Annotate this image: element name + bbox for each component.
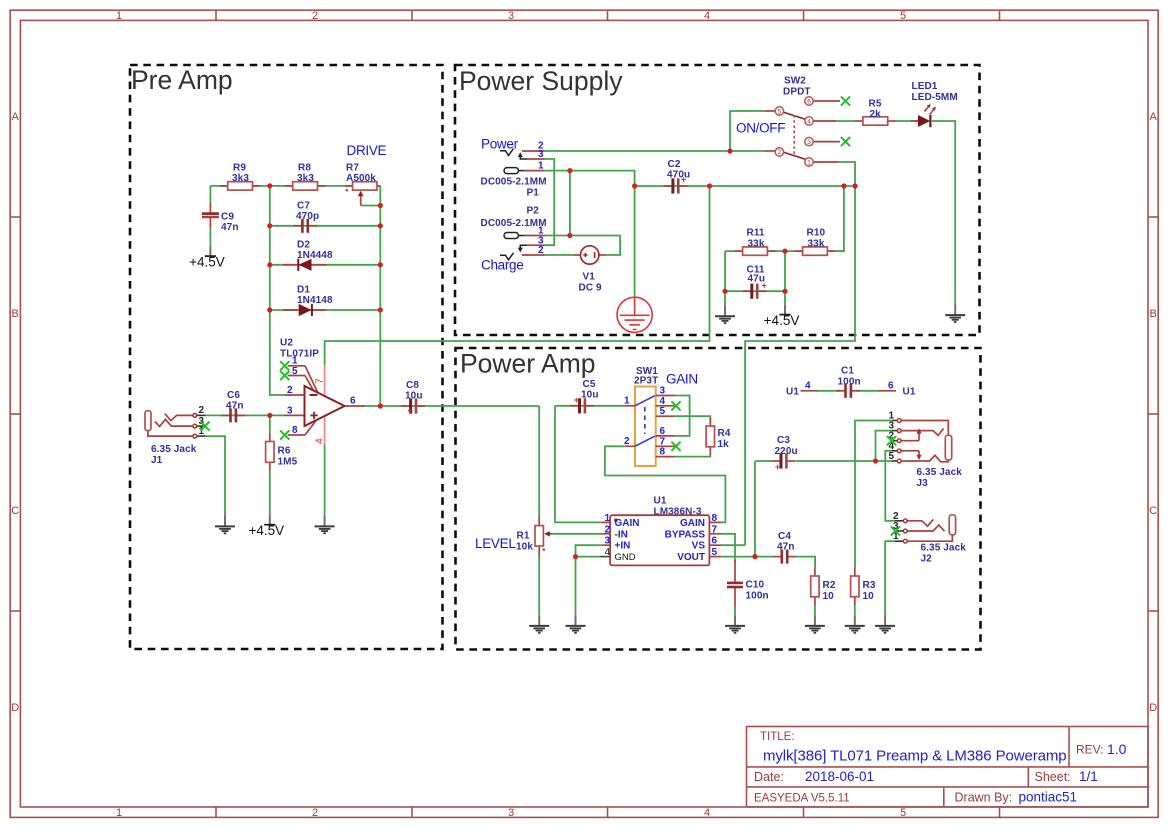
svg-text:3: 3 [538, 149, 544, 160]
svg-text:U1: U1 [654, 496, 667, 507]
svg-text:1: 1 [807, 159, 811, 166]
svg-text:LEVEL: LEVEL [475, 536, 516, 551]
frame row letters right [1149, 111, 1157, 714]
wire opamp pin4 to ground [324, 444, 326, 516]
svg-text:A: A [1150, 111, 1158, 123]
wire C4 to R2 [797, 557, 816, 568]
svg-text:2: 2 [312, 807, 318, 819]
IC U1 LM386N-3 [600, 496, 721, 566]
net flag +4.5V at C9 [189, 247, 225, 270]
wire R6 bottom to +4.5V [269, 470, 271, 516]
no-connect X SW2 pin6 [841, 96, 850, 105]
svg-text:1: 1 [116, 807, 122, 819]
svg-text:Charge: Charge [481, 258, 523, 273]
svg-text:4: 4 [605, 547, 611, 558]
wire VOUT row to C4 [721, 556, 773, 558]
junction P2 pin1 node [567, 233, 572, 238]
svg-text:1k: 1k [718, 439, 730, 450]
svg-text:4: 4 [314, 438, 326, 444]
diode D1 1N4148 [283, 285, 333, 317]
junction R11-R10 node [782, 249, 787, 254]
svg-text:1: 1 [538, 161, 544, 172]
potentiometer R1 [516, 517, 552, 557]
wire VOUT up to C3 [754, 461, 756, 557]
svg-text:P1: P1 [527, 188, 540, 199]
svg-text:C7: C7 [297, 201, 310, 212]
svg-text:DPDT: DPDT [783, 87, 811, 98]
svg-text:4: 4 [805, 381, 811, 392]
connector P2 DC005-2.1MM [481, 206, 547, 273]
wire input row J1 pin2 to opamp pin3 [206, 414, 285, 416]
switch SW2 DPDT [764, 76, 840, 167]
no-connect X opamp pin5 [280, 371, 289, 380]
svg-text:J1: J1 [151, 455, 163, 466]
resistor R2 [811, 568, 819, 605]
svg-text:C2: C2 [668, 159, 681, 170]
ground LED [945, 305, 965, 323]
svg-text:6: 6 [888, 381, 894, 392]
wire SW1 pin5 to R4 top [675, 416, 711, 420]
junction R10 tap [841, 183, 846, 188]
svg-text:R8: R8 [298, 163, 311, 174]
wire C5 row [555, 405, 625, 407]
svg-text:5: 5 [900, 807, 906, 819]
svg-text:2: 2 [312, 10, 318, 22]
svg-text:C3: C3 [777, 435, 790, 446]
svg-text:mylk[386] TL071 Preamp & LM386: mylk[386] TL071 Preamp & LM386 Poweramp [763, 748, 1066, 765]
wire J1 pin1 to ground [206, 436, 226, 516]
svg-text:6: 6 [807, 98, 811, 105]
svg-text:47n: 47n [221, 222, 239, 233]
svg-text:1N4448: 1N4448 [297, 250, 333, 261]
svg-text:GND: GND [615, 552, 636, 563]
svg-text:R2: R2 [823, 580, 836, 591]
svg-text:R10: R10 [807, 228, 826, 239]
svg-text:Pre Amp: Pre Amp [131, 65, 233, 95]
wire opamp output row [362, 405, 539, 407]
svg-text:2: 2 [287, 385, 293, 396]
svg-text:6: 6 [660, 426, 666, 437]
svg-text:LED1: LED1 [912, 81, 938, 92]
svg-text:Drawn By:: Drawn By: [955, 791, 1013, 805]
wire SW1 pin3 to pin6 [675, 396, 690, 436]
svg-text:C: C [11, 505, 19, 517]
ground R1 [529, 615, 549, 633]
svg-text:220u: 220u [775, 446, 798, 457]
wire U1 pin6 VS up [721, 544, 745, 546]
capacitor C6 [221, 408, 245, 422]
svg-text:B: B [12, 308, 19, 320]
svg-text:5: 5 [712, 547, 718, 558]
svg-text:1.0: 1.0 [1107, 741, 1127, 757]
svg-text:2P3T: 2P3T [634, 376, 658, 387]
switch SW1 2P3T [624, 366, 675, 466]
svg-text:3: 3 [807, 139, 811, 146]
frame column numbers bottom [116, 807, 906, 819]
svg-text:C9: C9 [221, 212, 234, 223]
resistor R8 [285, 182, 326, 190]
capacitor C2 [664, 159, 691, 194]
svg-text:2: 2 [538, 245, 544, 256]
svg-text:-IN: -IN [615, 529, 628, 540]
wire D1 row [270, 309, 381, 311]
svg-text:VS: VS [692, 541, 706, 552]
svg-text:3k3: 3k3 [297, 173, 314, 184]
svg-text:3: 3 [508, 807, 514, 819]
svg-text:3: 3 [508, 10, 514, 22]
svg-text:C4: C4 [778, 531, 791, 542]
svg-text:10k: 10k [516, 542, 533, 553]
svg-text:8: 8 [712, 513, 718, 524]
wire SW1 pin2 loop to U1 pin8 [605, 446, 726, 522]
ground C11 [715, 306, 735, 324]
svg-text:+: + [775, 462, 780, 472]
svg-text:47n: 47n [226, 401, 244, 412]
wire preamp out to R1 top [538, 406, 540, 517]
svg-text:C5: C5 [583, 379, 596, 390]
svg-text:33k: 33k [748, 239, 765, 250]
svg-text:REV:: REV: [1076, 743, 1104, 757]
resistor R3 [851, 568, 859, 605]
no-connect X J1 pin3 [200, 422, 209, 431]
svg-text:2: 2 [199, 405, 205, 416]
wire right feedback rail [379, 186, 381, 406]
svg-text:C1: C1 [841, 366, 854, 377]
wire U1 pin4 gnd stub [576, 556, 601, 558]
junction C11 left [722, 289, 727, 294]
resistor R5 [855, 117, 896, 125]
svg-text:10: 10 [823, 591, 835, 602]
svg-text:4: 4 [704, 10, 710, 22]
svg-text:1N4148: 1N4148 [297, 295, 333, 306]
svg-text:2k: 2k [870, 109, 882, 120]
svg-text:6.35 Jack: 6.35 Jack [151, 444, 197, 455]
frame row ticks right [1148, 217, 1158, 611]
svg-text:5: 5 [778, 108, 782, 115]
opamp U2 TL071IP [280, 338, 365, 445]
svg-text:6.35 Jack: 6.35 Jack [921, 543, 967, 554]
svg-text:P2: P2 [527, 206, 540, 217]
svg-text:5: 5 [660, 406, 666, 417]
svg-text:8: 8 [660, 447, 666, 458]
wire P1 pin1 row to C2 and earth [545, 171, 635, 297]
no-connect X SW1 pin4 [671, 401, 680, 410]
svg-text:6: 6 [350, 396, 356, 407]
svg-text:47u: 47u [748, 274, 766, 285]
svg-text:6: 6 [712, 536, 718, 547]
wire R11 R10 row [725, 250, 844, 252]
ground J1 [215, 516, 235, 534]
wire P2 pin1 row [545, 236, 621, 256]
wire J3 pin3 branch [876, 431, 892, 461]
svg-text:2: 2 [624, 436, 630, 447]
svg-text:BYPASS: BYPASS [665, 529, 706, 540]
capacitor C3 [772, 435, 798, 472]
wire R4 bottom to SW1 pin8 [675, 453, 711, 457]
no-connect X SW1 pin7 [671, 442, 680, 451]
junction preamp V+ tap [707, 183, 712, 188]
no-connect X opamp pin8 [280, 430, 289, 439]
capacitor C7 [293, 219, 317, 233]
svg-text:GAIN: GAIN [680, 518, 705, 529]
svg-text:1: 1 [116, 10, 122, 22]
svg-text:B: B [1150, 308, 1157, 320]
svg-text:SW2: SW2 [784, 76, 806, 87]
svg-text:47n: 47n [777, 542, 795, 553]
svg-text:C8: C8 [406, 380, 419, 391]
svg-text:GAIN: GAIN [666, 372, 698, 387]
svg-text:1/1: 1/1 [1079, 769, 1098, 784]
wire C10 bottom ground [734, 606, 736, 615]
svg-text:3: 3 [287, 406, 293, 417]
svg-text:J2: J2 [921, 554, 933, 565]
junction VOUT node [752, 554, 757, 559]
wire C1 fragment left [817, 390, 840, 392]
svg-text:Power Amp: Power Amp [460, 349, 596, 379]
wire C2 supply rail [635, 185, 855, 187]
svg-text:5: 5 [889, 451, 895, 462]
svg-text:1: 1 [605, 513, 611, 524]
svg-text:10u: 10u [405, 391, 423, 402]
svg-text:R6: R6 [278, 446, 291, 457]
resistor R9 [220, 182, 261, 190]
junction C11 right [782, 289, 787, 294]
wire C3 row to J3 pin5 [755, 460, 772, 462]
junction D1 right [378, 307, 383, 312]
wire C11 row [725, 290, 785, 292]
ground R2 [805, 615, 825, 633]
svg-text:R1: R1 [517, 531, 530, 542]
junction D2 left [267, 262, 272, 267]
svg-text:DC005-2.1MM: DC005-2.1MM [481, 218, 547, 229]
svg-text:VOUT: VOUT [677, 552, 705, 563]
ground J2 [875, 615, 895, 633]
wire left feedback rail [270, 186, 285, 395]
svg-text:D: D [11, 702, 19, 714]
svg-text:+: + [408, 406, 413, 416]
frame row ticks left [10, 217, 20, 611]
svg-text:1M5: 1M5 [278, 457, 298, 468]
net flag +4.5V at R6 [248, 516, 284, 539]
ground U1 [566, 615, 586, 633]
svg-text:D2: D2 [297, 240, 310, 251]
junction R6 input node [267, 413, 272, 418]
svg-text:5: 5 [292, 366, 298, 377]
svg-text:470p: 470p [296, 211, 319, 222]
wire R11 left down to C11 [724, 251, 726, 306]
svg-text:10: 10 [863, 591, 875, 602]
net flag +4.5V at C11 [764, 305, 800, 328]
title block [747, 727, 1149, 807]
svg-text:J3: J3 [917, 478, 929, 489]
wire U1 pin7 to C10 [721, 534, 735, 562]
svg-text:U2: U2 [280, 338, 293, 349]
wire SW2 pin1 to rail and power amp VS [745, 162, 855, 545]
jack J3 [889, 411, 963, 490]
svg-text:A: A [12, 111, 20, 123]
svg-text:D: D [1149, 702, 1157, 714]
svg-text:6.35 Jack: 6.35 Jack [917, 467, 963, 478]
junction C7 right [378, 223, 383, 228]
capacitor C10 [727, 560, 769, 607]
svg-text:2: 2 [778, 149, 782, 156]
jack J1 [145, 405, 206, 466]
wire P2 pin2 to V1 [545, 254, 574, 256]
svg-text:TL071IP: TL071IP [280, 349, 319, 360]
junction R9-R8 node [267, 183, 272, 188]
svg-text:+IN: +IN [615, 541, 631, 552]
junction SW2 pin1 tap [852, 183, 857, 188]
svg-text:7: 7 [712, 524, 718, 535]
Power Amp dashed section box [456, 348, 981, 650]
wire J3 pin4 to J2 pin2 [885, 451, 894, 521]
junction opamp output node [378, 403, 383, 408]
svg-text:10u: 10u [581, 390, 599, 401]
svg-text:R9: R9 [233, 163, 246, 174]
svg-text:C6: C6 [227, 390, 240, 401]
capacitor C9 [202, 204, 239, 248]
ground R3 [845, 615, 865, 633]
svg-text:V1: V1 [583, 272, 596, 283]
svg-text:4: 4 [807, 118, 811, 125]
svg-text:Date:: Date: [754, 770, 784, 784]
earth ground symbol red [617, 297, 652, 332]
wire R3 bottom ground [854, 605, 856, 616]
resistor R10 [795, 247, 836, 255]
Pre Amp dashed section box [130, 65, 443, 649]
svg-text:DC 9: DC 9 [579, 283, 603, 294]
junction P1 pin1 node [567, 168, 572, 173]
svg-text:3k3: 3k3 [232, 173, 249, 184]
resistor R4 [706, 418, 714, 455]
wire C1 fragment right [856, 390, 879, 392]
no-connect X J2 pin3 [891, 526, 900, 535]
svg-text:EASYEDA V5.5.11: EASYEDA V5.5.11 [754, 793, 850, 805]
jack J2 [893, 511, 966, 565]
resistor R6 [266, 433, 274, 470]
no-connect X opamp pin1 [280, 361, 289, 370]
svg-text:5: 5 [900, 10, 906, 22]
resistor R11 [735, 247, 776, 255]
svg-text:8: 8 [292, 425, 298, 436]
svg-text:+: + [574, 395, 579, 405]
wire SW2 pin5 branch [730, 111, 764, 151]
wire R10 branch vertical [836, 186, 844, 251]
junction D2 right [378, 262, 383, 267]
wire Power row P1 pin2 to SW2 pin2 [545, 150, 765, 152]
svg-text:4: 4 [660, 396, 666, 407]
junction D1 left [267, 307, 272, 312]
potentiometer R7 [345, 163, 380, 206]
svg-text:A500k: A500k [346, 173, 376, 184]
junction U1 gnd node [573, 554, 578, 559]
svg-text:LED-5MM: LED-5MM [912, 92, 958, 103]
svg-text:470u: 470u [667, 170, 690, 181]
wire D2 row [270, 264, 381, 266]
junction SW2 pin5 branch [727, 148, 732, 153]
frame column numbers top [116, 10, 906, 22]
svg-text:1: 1 [624, 396, 630, 407]
svg-text:Power Supply: Power Supply [459, 66, 623, 96]
wire C7 row [270, 225, 381, 227]
no-connect X J3 pin2 [887, 436, 896, 445]
wire U1 pin3 pin4 to ground [576, 545, 602, 615]
svg-text:R3: R3 [863, 580, 876, 591]
frame column ticks bottom [216, 807, 1000, 818]
svg-text:DRIVE: DRIVE [347, 143, 387, 158]
frame column ticks top [216, 10, 1000, 20]
ground opamp pin4 [315, 516, 335, 534]
wire R2 bottom ground [814, 605, 816, 616]
svg-text:7: 7 [314, 378, 326, 384]
svg-text:R7: R7 [346, 163, 359, 174]
svg-text:U1: U1 [786, 387, 799, 398]
wire J3 pin1 to R3 [855, 421, 892, 569]
Power Supply dashed section box [455, 65, 980, 335]
no-connect X SW2 pin3 [841, 137, 850, 146]
wire SW2 pin4 to R5 [836, 120, 855, 122]
svg-text:Sheet:: Sheet: [1035, 770, 1071, 784]
battery V1 DC 9 [574, 246, 607, 294]
svg-text:2018-06-01: 2018-06-01 [805, 769, 874, 784]
svg-text:R4: R4 [718, 428, 731, 439]
svg-text:R5: R5 [869, 99, 882, 110]
wire R1 bottom to ground [538, 557, 540, 616]
capacitor C1 with U1 supply pins [786, 366, 916, 398]
svg-text:DC005-2.1MM: DC005-2.1MM [481, 177, 547, 188]
wire P1 pin3 to P2 pin3 [545, 159, 555, 245]
svg-text:2: 2 [605, 524, 611, 535]
wire LED to ground [932, 121, 955, 305]
connector P1 DC005-2.1MM [481, 137, 547, 199]
junction J3 pin3 node [873, 458, 878, 463]
ground C10 [725, 615, 745, 633]
svg-text:4: 4 [704, 807, 710, 819]
LED1 LED-5MM [911, 81, 958, 127]
svg-text:100n: 100n [838, 377, 861, 388]
svg-text:C: C [1149, 505, 1157, 517]
svg-text:R11: R11 [747, 228, 765, 239]
wire J2 pin1 to ground [885, 541, 895, 615]
svg-text:100n: 100n [746, 591, 769, 602]
junction R7 wiper node [378, 203, 383, 208]
wire P1 pin1 to P2 pin1 vertical [569, 171, 571, 236]
wire R7 wiper to rail [361, 205, 381, 207]
wire V+ net to opamp pin7 [325, 186, 710, 365]
capacitor C4 [773, 550, 797, 564]
wire R5 to LED [896, 120, 918, 122]
capacitor C11 [742, 265, 766, 299]
frame row letters left [11, 111, 19, 714]
svg-text:33k: 33k [808, 239, 825, 250]
wire R11 R10 mid down to C11 right [784, 251, 786, 305]
wire R1 wiper to U1 pin2 [552, 533, 602, 535]
svg-text:ON/OFF: ON/OFF [736, 121, 785, 136]
capacitor C5 [570, 379, 598, 413]
capacitor C8 [401, 380, 425, 416]
junction C2 left node [632, 183, 637, 188]
svg-text:D1: D1 [297, 285, 310, 296]
svg-text:TITLE:: TITLE: [760, 731, 795, 743]
svg-text:1: 1 [292, 356, 298, 367]
wire R6 branch [269, 415, 271, 434]
svg-text:C10: C10 [746, 580, 765, 591]
svg-text:3: 3 [605, 536, 611, 547]
wire R9 row rail [210, 185, 380, 187]
diode D2 1N4448 [283, 240, 333, 271]
junction C7 left [267, 223, 272, 228]
svg-text:pontiac51: pontiac51 [1019, 790, 1078, 805]
